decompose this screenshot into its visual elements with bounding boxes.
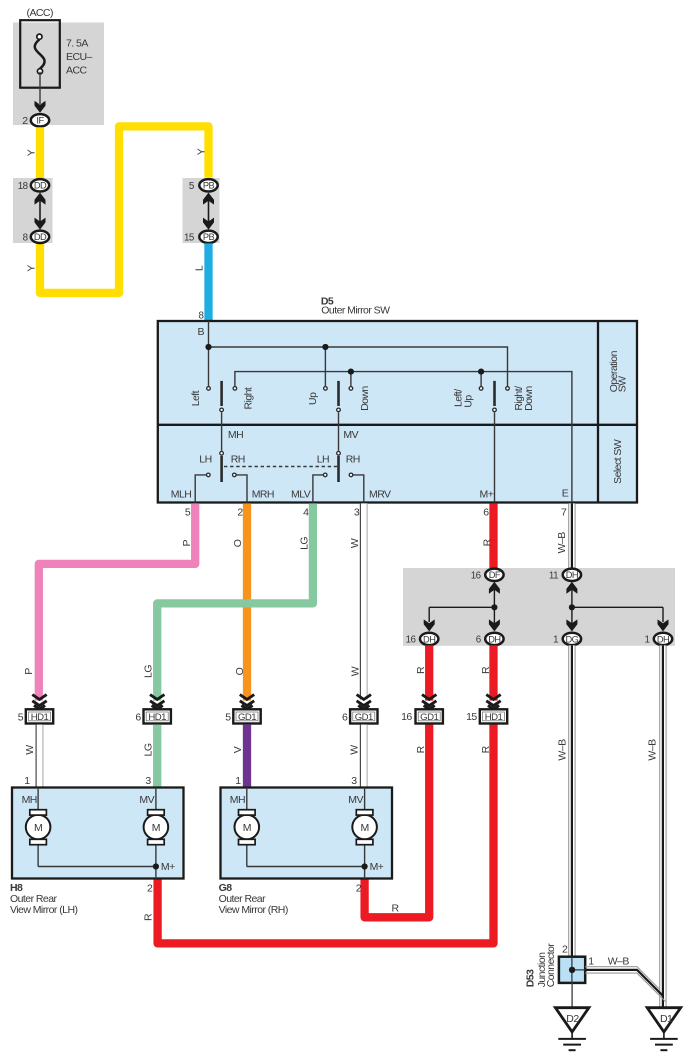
motor M MV G8 bbox=[352, 788, 377, 867]
svg-text:Right: Right bbox=[242, 387, 254, 409]
wire pole MV bbox=[338, 412, 340, 450]
svg-text:ECU–: ECU– bbox=[66, 51, 93, 63]
svg-text:D2: D2 bbox=[566, 1013, 579, 1025]
contact RH2 bbox=[349, 473, 353, 477]
svg-text:R: R bbox=[480, 745, 492, 753]
svg-text:MH: MH bbox=[228, 429, 243, 441]
wire pole MH bbox=[221, 412, 223, 450]
connector IF bbox=[31, 114, 49, 126]
contact Up bbox=[324, 387, 328, 391]
ground symbol D2 bbox=[558, 1032, 586, 1050]
arrow into DF bbox=[489, 582, 500, 632]
wire MLH stub bbox=[195, 475, 206, 503]
svg-text:15: 15 bbox=[466, 711, 477, 723]
svg-text:MV: MV bbox=[343, 429, 358, 441]
svg-text:3: 3 bbox=[351, 775, 357, 787]
svg-text:O: O bbox=[234, 667, 246, 675]
connector block background PB bbox=[183, 178, 220, 243]
wire W to G8 pin3 bbox=[360, 725, 367, 788]
arrow into IF bbox=[35, 101, 46, 113]
connector 6 DH bbox=[485, 633, 503, 645]
svg-text:Y: Y bbox=[195, 148, 207, 155]
svg-text:7. 5A: 7. 5A bbox=[66, 37, 88, 49]
wire D53 to D2 bbox=[571, 983, 573, 1008]
svg-text:Y: Y bbox=[25, 149, 37, 156]
connector 6 HD1 bbox=[144, 709, 171, 723]
mirror block G8 body bbox=[221, 788, 393, 879]
wire LG to H8 pin3 bbox=[153, 725, 161, 788]
junction dot B1 bbox=[205, 344, 211, 350]
junction dot B2 bbox=[322, 344, 328, 350]
svg-text:16: 16 bbox=[406, 635, 417, 646]
wire LG green bbox=[157, 503, 313, 700]
svg-text:DD: DD bbox=[34, 181, 47, 191]
wire R from M+ bbox=[489, 503, 497, 568]
svg-text:B: B bbox=[198, 326, 205, 338]
svg-text:R: R bbox=[482, 538, 494, 546]
junction block background bbox=[403, 568, 675, 646]
connector block background DD bbox=[13, 178, 53, 243]
svg-text:2: 2 bbox=[22, 115, 28, 127]
svg-text:R: R bbox=[392, 903, 400, 915]
svg-text:PB: PB bbox=[203, 181, 215, 191]
svg-text:W–B: W–B bbox=[556, 739, 568, 761]
svg-text:MRV: MRV bbox=[369, 488, 391, 500]
svg-text:O: O bbox=[232, 539, 244, 547]
svg-text:1: 1 bbox=[235, 775, 241, 787]
svg-text:MH: MH bbox=[22, 794, 37, 806]
label Right/Down bbox=[513, 386, 535, 411]
svg-text:MV: MV bbox=[348, 794, 363, 806]
svg-text:R: R bbox=[415, 666, 427, 674]
svg-text:LH: LH bbox=[199, 453, 211, 465]
svg-text:Down: Down bbox=[523, 386, 535, 411]
label D53 bbox=[524, 943, 557, 988]
svg-text:Up: Up bbox=[307, 392, 319, 405]
svg-text:GD1: GD1 bbox=[238, 712, 256, 723]
wire W to H8 pin1 bbox=[36, 725, 43, 788]
svg-text:LH: LH bbox=[317, 453, 329, 465]
svg-text:R: R bbox=[415, 745, 427, 753]
wire W-B from E bbox=[569, 503, 575, 568]
arrow chevrons R left bbox=[422, 695, 436, 710]
select lever MV bbox=[337, 456, 340, 482]
svg-text:M+: M+ bbox=[161, 861, 175, 873]
wire R 16DH to GD1 bbox=[425, 645, 433, 700]
svg-text:M+: M+ bbox=[480, 488, 494, 500]
fuse block background bbox=[13, 23, 104, 126]
svg-text:PB: PB bbox=[203, 232, 215, 242]
connector 1 DH bbox=[654, 633, 672, 645]
svg-text:2: 2 bbox=[147, 883, 153, 895]
svg-text:M: M bbox=[243, 822, 251, 834]
wire R G8 to 16 GD1 bbox=[365, 724, 430, 918]
label Left/Up bbox=[453, 389, 475, 408]
svg-text:16: 16 bbox=[471, 571, 482, 582]
svg-text:4: 4 bbox=[303, 507, 309, 519]
svg-text:7: 7 bbox=[561, 507, 567, 519]
wire Y from IF to 5 PB bbox=[40, 126, 209, 293]
svg-text:DH: DH bbox=[488, 634, 500, 644]
svg-text:8: 8 bbox=[198, 310, 204, 321]
connector 16 DH bbox=[420, 633, 438, 645]
svg-text:GD1: GD1 bbox=[355, 712, 373, 723]
svg-text:DG: DG bbox=[565, 634, 578, 644]
svg-text:DD: DD bbox=[34, 232, 47, 242]
connector 5 PB bbox=[199, 179, 217, 191]
contact Down bbox=[349, 387, 353, 391]
arrow into 1 DH bbox=[658, 607, 669, 631]
svg-text:W: W bbox=[349, 538, 361, 548]
svg-text:IF: IF bbox=[36, 116, 44, 126]
svg-text:Outer Mirror SW: Outer Mirror SW bbox=[321, 305, 390, 317]
svg-text:DH: DH bbox=[566, 570, 578, 580]
svg-text:W–B: W–B bbox=[647, 739, 659, 761]
wire M+ G8 bbox=[247, 867, 365, 879]
svg-text:M+: M+ bbox=[370, 861, 384, 873]
svg-text:R: R bbox=[480, 666, 492, 674]
svg-text:6: 6 bbox=[483, 507, 489, 519]
contact LH2 bbox=[323, 473, 327, 477]
svg-text:MH: MH bbox=[230, 794, 245, 806]
svg-text:1: 1 bbox=[24, 775, 30, 787]
switch lever Left-Right bbox=[220, 381, 223, 406]
connector 5 HD1 bbox=[26, 709, 53, 723]
arrow into 16 DH bbox=[424, 607, 435, 631]
arrow chevrons O bbox=[240, 695, 254, 710]
connector 6 GD1 bbox=[350, 709, 377, 723]
contact RH1 bbox=[233, 473, 237, 477]
wire L from 15 PB to D5 pin 8 bbox=[204, 243, 212, 321]
label Operation SW bbox=[608, 350, 628, 392]
svg-text:V: V bbox=[232, 746, 244, 753]
svg-text:MLH: MLH bbox=[171, 488, 192, 500]
switch lever Up-Down bbox=[337, 381, 340, 406]
svg-text:2: 2 bbox=[562, 943, 568, 955]
svg-text:MLV: MLV bbox=[291, 488, 311, 500]
svg-text:HD1: HD1 bbox=[485, 712, 503, 723]
pole circle LeftUp-RightDown bbox=[493, 408, 497, 412]
svg-text:MRH: MRH bbox=[252, 488, 274, 500]
wire MLV stub bbox=[313, 475, 323, 503]
connector 16 GD1 bbox=[416, 709, 443, 723]
wire O orange bbox=[243, 503, 251, 700]
svg-text:2: 2 bbox=[237, 507, 243, 519]
svg-text:M: M bbox=[360, 822, 368, 834]
svg-text:15: 15 bbox=[184, 233, 195, 244]
pole circle Left-Right bbox=[220, 408, 224, 412]
svg-text:Up: Up bbox=[462, 395, 474, 408]
connector 11 DH bbox=[563, 569, 581, 581]
motor M MV H8 bbox=[144, 788, 169, 867]
junction dot DH bbox=[569, 604, 575, 610]
contact Left/Up bbox=[479, 387, 483, 391]
switch lever LeftUp-RightDown bbox=[493, 381, 496, 406]
wire V to G8 pin1 bbox=[243, 725, 251, 788]
svg-text:LG: LG bbox=[143, 665, 155, 678]
wire R H8 to 15 HD1 bbox=[158, 724, 494, 944]
svg-text:SW: SW bbox=[616, 376, 628, 392]
arrow chevrons P bbox=[32, 695, 46, 710]
svg-text:W: W bbox=[24, 745, 36, 755]
wire W-B 1DG down bbox=[569, 645, 575, 956]
svg-text:D1: D1 bbox=[660, 1013, 673, 1025]
wire P pink bbox=[39, 503, 195, 700]
arrows between PB connectors bbox=[203, 193, 214, 230]
label Outer Rear LH bbox=[10, 893, 77, 916]
wire W-B D53 to D1 bbox=[585, 967, 666, 1002]
svg-text:18: 18 bbox=[18, 181, 29, 192]
wire M+ H8 bbox=[38, 867, 156, 879]
svg-text:2: 2 bbox=[356, 883, 362, 895]
wire pole M+ bbox=[494, 412, 496, 502]
select lever MH bbox=[220, 456, 223, 482]
mechanical link dashed bbox=[224, 466, 338, 468]
svg-text:W: W bbox=[350, 666, 362, 676]
connector 15 PB bbox=[199, 231, 217, 243]
svg-text:GD1: GD1 bbox=[420, 712, 438, 723]
svg-text:11: 11 bbox=[549, 571, 558, 582]
pole circle Up-Down bbox=[337, 408, 341, 412]
fuse F1 7.5A ECU-ACC bbox=[20, 20, 60, 88]
junction dot D53 bbox=[569, 967, 575, 973]
wire W-B 1DH down bbox=[660, 645, 666, 1007]
svg-text:1: 1 bbox=[644, 635, 649, 646]
svg-text:6: 6 bbox=[342, 712, 348, 724]
svg-text:E: E bbox=[562, 488, 569, 500]
contact Left bbox=[207, 387, 211, 391]
motor M MH H8 bbox=[26, 788, 51, 867]
mirror block H8 body bbox=[12, 788, 184, 879]
svg-text:1: 1 bbox=[588, 955, 594, 967]
arrow chevrons R right bbox=[486, 695, 500, 710]
svg-text:3: 3 bbox=[354, 507, 360, 519]
svg-text:DH: DH bbox=[423, 634, 435, 644]
svg-text:HD1: HD1 bbox=[148, 712, 166, 723]
svg-text:1: 1 bbox=[553, 635, 558, 646]
svg-text:P: P bbox=[181, 539, 193, 546]
motor M MH G8 bbox=[235, 788, 260, 867]
switch block D5 body bbox=[158, 321, 637, 503]
svg-text:View Mirror (RH): View Mirror (RH) bbox=[219, 904, 288, 916]
svg-text:5: 5 bbox=[18, 712, 24, 724]
svg-text:DF: DF bbox=[489, 570, 501, 580]
svg-text:HD1: HD1 bbox=[31, 712, 49, 723]
connector 15 HD1 bbox=[480, 709, 507, 723]
svg-text:W–B: W–B bbox=[556, 532, 568, 554]
label Outer Rear RH bbox=[219, 893, 288, 916]
wire inside D53 bbox=[572, 957, 585, 983]
junction connector D53 body bbox=[559, 957, 585, 983]
arrow into 11 DH bbox=[566, 582, 577, 632]
svg-text:LG: LG bbox=[143, 743, 155, 756]
select pivot MV bbox=[337, 451, 341, 455]
connector 8 DD bbox=[31, 231, 49, 243]
svg-text:16: 16 bbox=[401, 711, 412, 723]
junction dot M+ H8 bbox=[153, 863, 159, 869]
svg-text:M: M bbox=[34, 822, 42, 834]
wire DH branch bbox=[572, 606, 663, 608]
svg-text:MV: MV bbox=[139, 794, 154, 806]
svg-text:RH: RH bbox=[346, 453, 360, 465]
svg-text:RH: RH bbox=[231, 453, 245, 465]
ground D1 triangle bbox=[647, 1008, 681, 1032]
junction dot M+ G8 bbox=[362, 863, 368, 869]
contact Right bbox=[233, 387, 237, 391]
connector 18 DD bbox=[31, 179, 49, 191]
svg-text:5: 5 bbox=[225, 712, 231, 724]
ground D2 triangle bbox=[555, 1008, 589, 1032]
arrow chevrons W bbox=[357, 695, 371, 710]
svg-text:L: L bbox=[193, 265, 205, 271]
fuse value label bbox=[66, 37, 93, 76]
svg-text:R: R bbox=[143, 913, 155, 921]
svg-text:W–B: W–B bbox=[608, 955, 630, 967]
wire R 6DH to HD1 bbox=[489, 645, 497, 700]
wire MRH stub bbox=[236, 475, 247, 503]
svg-text:Left: Left bbox=[190, 390, 202, 406]
D5 inner divider horizontal bbox=[158, 424, 638, 426]
junction dot DF bbox=[491, 604, 497, 610]
svg-text:DH: DH bbox=[657, 634, 669, 644]
wire MRV stub bbox=[353, 475, 364, 503]
contact LH1 bbox=[207, 473, 211, 477]
wire W white MRV bbox=[360, 503, 367, 699]
svg-text:P: P bbox=[23, 668, 35, 675]
svg-text:3: 3 bbox=[145, 775, 151, 787]
svg-text:W: W bbox=[348, 745, 360, 755]
svg-text:5: 5 bbox=[185, 507, 191, 519]
arrows between DD connectors bbox=[35, 193, 46, 230]
connector 16 DF bbox=[485, 569, 503, 581]
svg-text:Down: Down bbox=[359, 386, 371, 411]
svg-text:(ACC): (ACC) bbox=[27, 7, 53, 19]
svg-text:D53: D53 bbox=[524, 969, 536, 987]
wire DF branch bbox=[429, 606, 494, 608]
junction dot E2 bbox=[478, 369, 484, 375]
svg-text:View Mirror (LH): View Mirror (LH) bbox=[10, 904, 77, 916]
connector 5 GD1 bbox=[233, 709, 260, 723]
svg-text:LG: LG bbox=[298, 537, 310, 550]
connector 1 DG bbox=[563, 633, 581, 645]
D5 inner divider vertical bbox=[597, 321, 599, 503]
select pivot MH bbox=[220, 451, 224, 455]
svg-text:Select SW: Select SW bbox=[612, 439, 624, 484]
svg-text:6: 6 bbox=[135, 712, 141, 724]
svg-text:Connector: Connector bbox=[545, 943, 557, 988]
junction dot E1 bbox=[348, 369, 354, 375]
svg-text:M: M bbox=[152, 822, 160, 834]
svg-text:ACC: ACC bbox=[66, 65, 87, 77]
svg-text:Y: Y bbox=[25, 265, 37, 272]
wire B bus bbox=[209, 321, 508, 386]
wire fuse to IF bbox=[39, 72, 41, 104]
arrow chevrons LG bbox=[150, 695, 164, 710]
ground symbol D1 bbox=[650, 1032, 678, 1050]
wire E bus bbox=[235, 372, 572, 503]
contact Right/Down bbox=[506, 387, 510, 391]
